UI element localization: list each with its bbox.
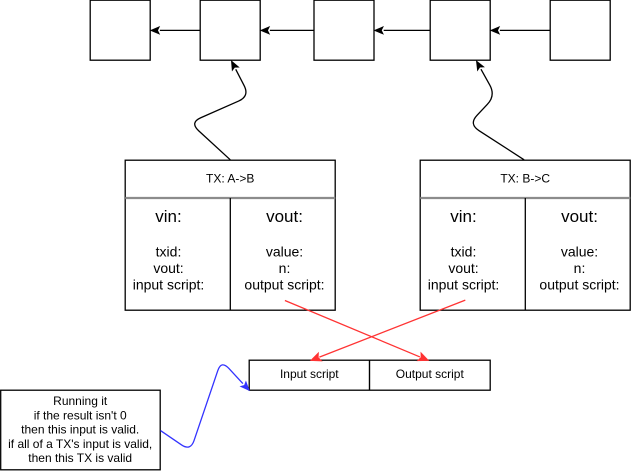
svg-text:then this TX is valid: then this TX is valid	[28, 451, 132, 465]
svg-text:txid:: txid:	[451, 244, 477, 260]
svg-text:value:: value:	[266, 244, 303, 260]
svg-text:if the result isn't 0: if the result isn't 0	[34, 408, 127, 422]
svg-text:vout:: vout:	[153, 260, 183, 276]
svg-text:Input script: Input script	[280, 367, 339, 381]
svg-text:n:: n:	[279, 260, 291, 276]
svg-text:TX: B->C: TX: B->C	[500, 172, 550, 186]
svg-text:then this input is valid.: then this input is valid.	[21, 423, 139, 437]
svg-text:Running it: Running it	[53, 394, 108, 408]
svg-text:vout:: vout:	[266, 207, 303, 226]
svg-text:output script:: output script:	[244, 277, 324, 293]
svg-text:vout:: vout:	[448, 260, 478, 276]
svg-text:TX: A->B: TX: A->B	[206, 172, 254, 186]
svg-text:txid:: txid:	[156, 244, 182, 260]
svg-text:Output script: Output script	[396, 367, 465, 381]
svg-text:value:: value:	[561, 244, 598, 260]
svg-text:input script:: input script:	[133, 277, 205, 293]
svg-text:if all of a TX's input is vali: if all of a TX's input is valid,	[8, 437, 152, 451]
svg-text:input script:: input script:	[428, 277, 500, 293]
svg-text:output script:: output script:	[539, 277, 619, 293]
svg-text:vin:: vin:	[450, 207, 476, 226]
svg-text:vout:: vout:	[561, 207, 598, 226]
svg-text:n:: n:	[574, 260, 586, 276]
svg-text:vin:: vin:	[155, 207, 181, 226]
